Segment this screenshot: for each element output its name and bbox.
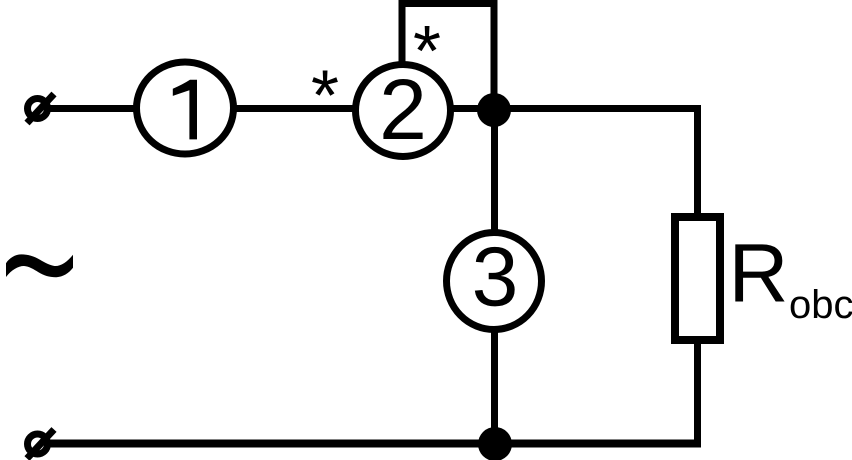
terminal X1 (top input, o-slash symbol) (27, 94, 54, 123)
wire: bottom rail from terminal to right corner (44, 440, 701, 448)
wattmeter 2 (circle) (356, 65, 451, 157)
label 3 (475, 247, 515, 306)
wire: node A down through voltmeter 3 to node B (491, 108, 498, 444)
asterisk (wattmeter current-coil dot) (312, 70, 338, 95)
terminal X2 (bottom input, o-slash symbol) (27, 430, 54, 459)
label obc subscript (791, 289, 852, 318)
asterisk (wattmeter voltage-coil dot) (414, 26, 440, 51)
node A (top junction dot) (477, 93, 511, 127)
AC source tilde (6, 254, 73, 277)
label R (735, 244, 784, 301)
node B (bottom junction dot) (478, 427, 512, 460)
wire: R_obc bottom down to bottom rail (694, 340, 701, 448)
ammeter 1 (circle) (137, 62, 234, 154)
wire: wattmeter 2 to right corner, down to R_obc top (448, 109, 698, 217)
wire: top-left terminal to ammeter 1 (44, 105, 140, 112)
label 1 (173, 80, 197, 140)
label 2 (383, 79, 422, 139)
wire: ammeter 1 to wattmeter 2 (230, 105, 360, 112)
voltmeter 3 (circle) (447, 233, 542, 330)
resistor R_obc (load) (675, 217, 720, 340)
wire: wattmeter voltage-coil loop (up over to node A) (402, 4, 494, 101)
